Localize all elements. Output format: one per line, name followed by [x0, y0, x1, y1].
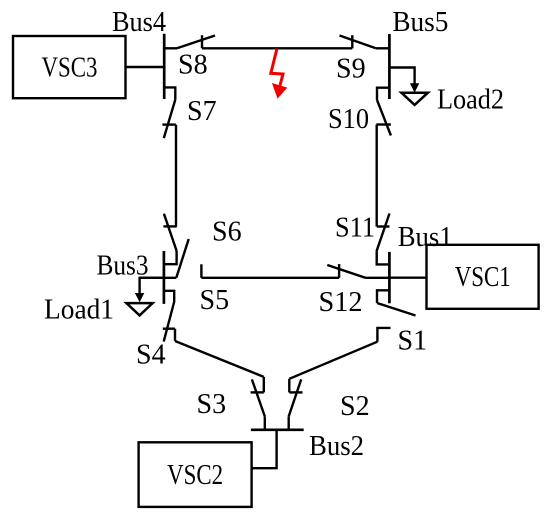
svg-text:S10: S10: [328, 104, 369, 135]
label S9: [336, 53, 366, 84]
label Load1: [44, 295, 114, 326]
svg-text:S3: S3: [197, 389, 227, 420]
switch S2: [289, 379, 303, 430]
label VSC1: [455, 262, 511, 293]
switch S3: [251, 377, 265, 430]
label Bus5: [392, 7, 448, 38]
label S3: [197, 389, 227, 420]
label Bus1: [398, 222, 453, 253]
switch S9: [340, 35, 390, 48]
switch S5 (open): [140, 239, 202, 278]
wire Bus2 to VSC2: [252, 430, 277, 468]
label VSC2: [167, 460, 223, 491]
svg-text:Bus5: Bus5: [392, 7, 448, 38]
svg-text:VSC1: VSC1: [455, 262, 511, 293]
svg-text:S6: S6: [212, 217, 242, 248]
svg-text:Bus4: Bus4: [112, 7, 166, 38]
svg-text:Load1: Load1: [44, 295, 114, 326]
svg-text:S8: S8: [178, 50, 208, 81]
converter VSC1: [427, 245, 539, 309]
switch S8: [164, 35, 215, 48]
label Bus2: [309, 431, 364, 462]
label VSC3: [42, 52, 98, 83]
wire Bus1 to VSC1: [389, 277, 426, 279]
wire S10 to S11: [376, 125, 378, 227]
wire S4 to S3: [175, 341, 264, 377]
bus bar Bus4: [163, 34, 166, 99]
svg-text:Bus3: Bus3: [97, 251, 149, 282]
converter VSC3: [13, 36, 126, 98]
label S4: [136, 339, 166, 370]
bus bar Bus5: [388, 34, 391, 99]
svg-text:Bus1: Bus1: [398, 222, 453, 253]
wire S5 to S12 (tie line Bus3-Bus1): [201, 277, 339, 279]
label S10: [328, 104, 369, 135]
svg-text:VSC3: VSC3: [42, 52, 98, 83]
switch S11: [377, 214, 390, 265]
wire S7 to S6: [175, 125, 177, 227]
switch S4: [163, 291, 175, 342]
switch S7: [162, 87, 176, 138]
svg-text:S7: S7: [187, 96, 217, 127]
label S5: [200, 285, 230, 316]
svg-text:S12: S12: [319, 287, 363, 318]
svg-text:S2: S2: [340, 391, 370, 422]
load Load2 branch: [389, 68, 428, 105]
switch S6: [163, 214, 176, 265]
label S7: [187, 96, 217, 127]
label Bus3: [97, 251, 149, 282]
label Load2: [437, 85, 504, 116]
bus bar Bus3: [163, 251, 166, 304]
switch S12: [327, 264, 389, 278]
wire S1 to S2: [289, 342, 377, 379]
svg-text:S11: S11: [335, 212, 375, 243]
svg-text:S1: S1: [398, 326, 428, 357]
svg-text:VSC2: VSC2: [167, 460, 223, 491]
svg-text:S5: S5: [200, 285, 230, 316]
bus bar Bus1: [388, 252, 391, 303]
svg-text:S9: S9: [336, 53, 366, 84]
label S6: [212, 217, 242, 248]
svg-text:Bus2: Bus2: [309, 431, 364, 462]
switch S10: [376, 88, 391, 136]
label Bus4: [112, 7, 166, 38]
label S12: [319, 287, 363, 318]
label S2: [340, 391, 370, 422]
svg-text:S4: S4: [136, 339, 166, 370]
load Load1 branch: [126, 278, 163, 316]
wire VSC3 to Bus4: [126, 66, 165, 68]
fault lightning bolt: [271, 49, 288, 99]
label S1: [398, 326, 428, 357]
wire S8 to S9 (tie line Bus4-Bus5): [202, 47, 352, 49]
label S11: [335, 212, 375, 243]
converter VSC2: [139, 442, 252, 507]
label S8: [178, 50, 208, 81]
svg-text:Load2: Load2: [437, 85, 504, 116]
bus bar Bus2: [251, 428, 304, 431]
switch S1 (open): [377, 290, 416, 341]
